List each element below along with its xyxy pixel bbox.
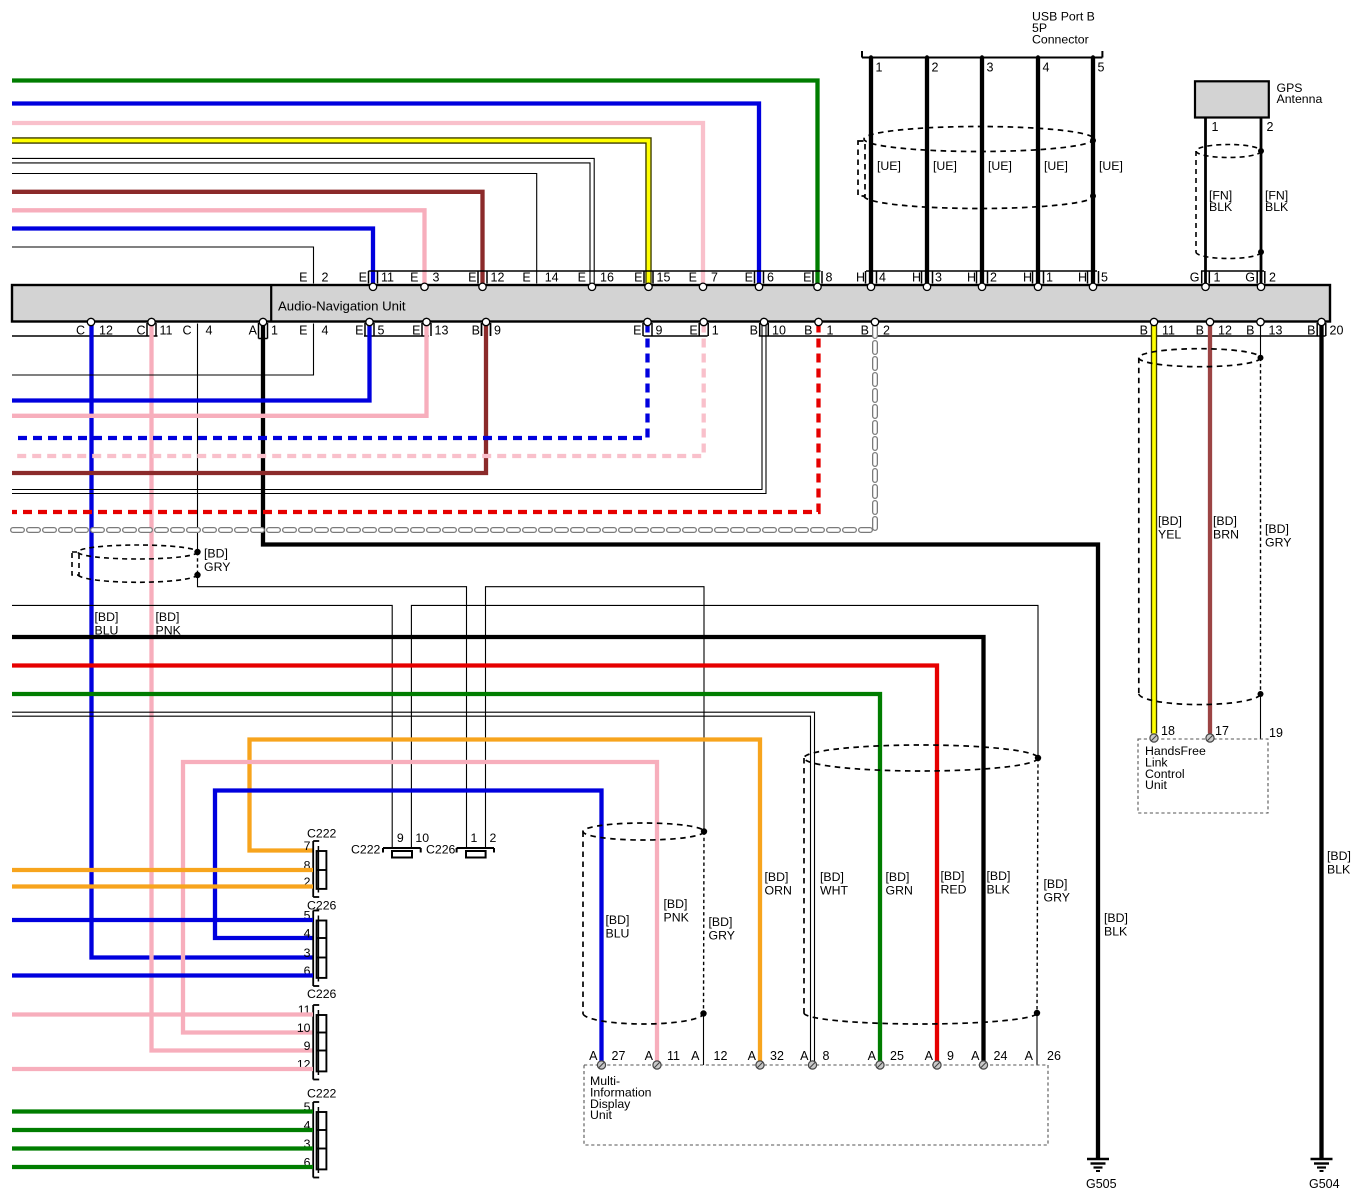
svg-text:[BD]: [BD]: [765, 870, 789, 884]
svg-text:[BD]: [BD]: [1044, 877, 1068, 891]
svg-text:E: E: [410, 270, 418, 284]
svg-text:H: H: [912, 270, 921, 284]
svg-text:E: E: [412, 324, 420, 338]
svg-text:27: 27: [612, 1049, 626, 1063]
svg-text:17: 17: [1215, 724, 1229, 738]
svg-text:E: E: [745, 270, 753, 284]
svg-text:E: E: [299, 324, 307, 338]
svg-text:Unit: Unit: [590, 1108, 612, 1122]
svg-text:7: 7: [304, 839, 311, 853]
svg-text:E: E: [468, 270, 476, 284]
svg-text:A: A: [971, 1049, 980, 1063]
svg-text:[BD]: [BD]: [95, 610, 119, 624]
svg-text:[UE]: [UE]: [933, 159, 957, 173]
svg-text:A: A: [589, 1049, 598, 1063]
svg-text:2: 2: [932, 61, 939, 75]
svg-text:E: E: [689, 324, 697, 338]
svg-text:3: 3: [935, 270, 942, 284]
svg-text:[BD]: [BD]: [941, 869, 965, 883]
svg-text:3: 3: [433, 270, 440, 284]
svg-text:C: C: [136, 324, 145, 338]
svg-text:GRN: GRN: [886, 884, 913, 898]
svg-text:E: E: [359, 270, 367, 284]
svg-text:[UE]: [UE]: [877, 159, 901, 173]
svg-text:2: 2: [490, 831, 497, 845]
svg-text:B: B: [1140, 324, 1148, 338]
svg-text:8: 8: [826, 270, 833, 284]
svg-text:BLK: BLK: [1265, 200, 1289, 214]
svg-text:9: 9: [397, 831, 404, 845]
svg-text:26: 26: [1047, 1049, 1061, 1063]
svg-text:G504: G504: [1309, 1177, 1340, 1191]
svg-text:24: 24: [994, 1049, 1008, 1063]
svg-text:9: 9: [304, 1039, 311, 1053]
svg-text:15: 15: [657, 270, 671, 284]
svg-text:32: 32: [770, 1049, 784, 1063]
svg-text:YEL: YEL: [1158, 528, 1181, 542]
svg-text:11: 11: [381, 270, 394, 284]
svg-text:[UE]: [UE]: [1099, 159, 1123, 173]
svg-text:10: 10: [772, 324, 786, 338]
svg-text:BLK: BLK: [1104, 925, 1128, 939]
svg-text:E: E: [578, 270, 586, 284]
svg-text:BRN: BRN: [1213, 528, 1239, 542]
svg-text:[BD]: [BD]: [709, 915, 733, 929]
svg-text:7: 7: [711, 270, 718, 284]
svg-text:C226: C226: [426, 843, 456, 857]
svg-text:A: A: [748, 1049, 757, 1063]
svg-text:PNK: PNK: [156, 624, 182, 638]
svg-text:A: A: [691, 1049, 700, 1063]
svg-text:C226: C226: [307, 899, 337, 913]
svg-text:4: 4: [879, 270, 886, 284]
svg-text:1: 1: [1214, 270, 1221, 284]
svg-text:[BD]: [BD]: [156, 610, 180, 624]
svg-text:5: 5: [1101, 270, 1108, 284]
svg-text:G: G: [1190, 270, 1200, 284]
svg-text:Audio-Navigation Unit: Audio-Navigation Unit: [278, 299, 406, 314]
svg-text:18: 18: [1161, 724, 1175, 738]
svg-text:10: 10: [415, 831, 429, 845]
svg-text:BLK: BLK: [1327, 863, 1351, 877]
svg-text:Antenna: Antenna: [1277, 92, 1323, 106]
svg-text:11: 11: [160, 324, 173, 338]
svg-text:9: 9: [947, 1049, 954, 1063]
svg-text:[BD]: [BD]: [820, 870, 844, 884]
svg-text:C222: C222: [351, 843, 381, 857]
svg-text:E: E: [522, 270, 530, 284]
svg-text:14: 14: [545, 270, 559, 284]
svg-text:C222: C222: [307, 827, 337, 841]
svg-text:[BD]: [BD]: [1104, 911, 1128, 925]
svg-text:[BD]: [BD]: [1158, 514, 1182, 528]
svg-text:11: 11: [1162, 324, 1175, 338]
svg-text:6: 6: [767, 270, 774, 284]
svg-text:1: 1: [471, 831, 478, 845]
svg-text:2: 2: [1269, 270, 1276, 284]
svg-text:4: 4: [1043, 61, 1050, 75]
svg-text:1: 1: [827, 324, 834, 338]
svg-text:2: 2: [883, 324, 890, 338]
svg-text:PNK: PNK: [664, 911, 690, 925]
svg-text:[BD]: [BD]: [1265, 522, 1289, 536]
svg-text:BLK: BLK: [987, 883, 1011, 897]
svg-text:G505: G505: [1086, 1177, 1117, 1191]
svg-text:A: A: [249, 324, 258, 338]
svg-text:B: B: [861, 324, 869, 338]
svg-text:[BD]: [BD]: [987, 869, 1011, 883]
svg-text:9: 9: [656, 324, 663, 338]
svg-text:B: B: [1246, 324, 1254, 338]
svg-text:25: 25: [890, 1049, 904, 1063]
svg-text:E: E: [633, 324, 641, 338]
svg-text:13: 13: [1269, 324, 1283, 338]
svg-text:BLU: BLU: [606, 927, 630, 941]
svg-text:[BD]: [BD]: [606, 913, 630, 927]
svg-text:[UE]: [UE]: [1044, 159, 1068, 173]
svg-text:2: 2: [322, 270, 329, 284]
svg-text:4: 4: [304, 927, 311, 941]
svg-text:BLU: BLU: [95, 624, 119, 638]
svg-text:E: E: [689, 270, 697, 284]
svg-text:4: 4: [206, 324, 213, 338]
svg-text:[UE]: [UE]: [988, 159, 1012, 173]
svg-text:12: 12: [1218, 324, 1232, 338]
svg-text:C222: C222: [307, 1087, 337, 1101]
svg-text:B: B: [750, 324, 758, 338]
svg-text:H: H: [1078, 270, 1087, 284]
svg-text:3: 3: [987, 61, 994, 75]
svg-text:3: 3: [304, 946, 311, 960]
svg-text:5: 5: [1098, 61, 1105, 75]
svg-text:E: E: [634, 270, 642, 284]
svg-text:C226: C226: [307, 987, 337, 1001]
svg-text:Connector: Connector: [1032, 32, 1089, 46]
svg-text:10: 10: [297, 1021, 311, 1035]
svg-text:B: B: [1307, 324, 1315, 338]
svg-text:A: A: [868, 1049, 877, 1063]
svg-text:11: 11: [667, 1049, 680, 1063]
svg-text:12: 12: [714, 1049, 728, 1063]
svg-text:A: A: [925, 1049, 934, 1063]
svg-text:GRY: GRY: [204, 560, 230, 574]
svg-text:GRY: GRY: [709, 929, 735, 943]
svg-text:9: 9: [494, 324, 501, 338]
svg-text:4: 4: [322, 324, 329, 338]
svg-text:H: H: [967, 270, 976, 284]
svg-text:1: 1: [712, 324, 719, 338]
svg-text:[BD]: [BD]: [886, 870, 910, 884]
svg-text:1: 1: [876, 61, 883, 75]
svg-text:19: 19: [1269, 726, 1283, 740]
svg-text:C: C: [76, 324, 85, 338]
svg-text:13: 13: [435, 324, 449, 338]
svg-text:Unit: Unit: [1145, 778, 1167, 792]
svg-text:A: A: [1025, 1049, 1034, 1063]
svg-text:8: 8: [823, 1049, 830, 1063]
svg-text:G: G: [1245, 270, 1255, 284]
svg-text:BLK: BLK: [1209, 200, 1233, 214]
svg-text:A: A: [645, 1049, 654, 1063]
svg-text:A: A: [800, 1049, 809, 1063]
svg-text:1: 1: [1212, 120, 1219, 134]
svg-text:B: B: [804, 324, 812, 338]
svg-text:H: H: [856, 270, 865, 284]
svg-text:GRY: GRY: [1265, 536, 1291, 550]
svg-text:1: 1: [271, 324, 278, 338]
svg-text:B: B: [1196, 324, 1204, 338]
svg-text:[BD]: [BD]: [204, 547, 228, 561]
svg-text:1: 1: [1046, 270, 1053, 284]
svg-text:2: 2: [1267, 120, 1274, 134]
svg-text:E: E: [355, 324, 363, 338]
svg-text:12: 12: [491, 270, 505, 284]
svg-text:12: 12: [99, 324, 113, 338]
svg-text:20: 20: [1330, 324, 1344, 338]
svg-text:B: B: [472, 324, 480, 338]
svg-text:C: C: [182, 324, 191, 338]
svg-text:E: E: [803, 270, 811, 284]
svg-text:GRY: GRY: [1044, 891, 1070, 905]
svg-text:16: 16: [600, 270, 614, 284]
svg-text:H: H: [1023, 270, 1032, 284]
svg-text:[BD]: [BD]: [664, 897, 688, 911]
svg-text:ORN: ORN: [765, 884, 792, 898]
svg-text:E: E: [299, 270, 307, 284]
svg-text:[BD]: [BD]: [1213, 514, 1237, 528]
svg-text:5: 5: [378, 324, 385, 338]
svg-text:2: 2: [990, 270, 997, 284]
svg-text:WHT: WHT: [820, 884, 848, 898]
svg-text:RED: RED: [941, 883, 967, 897]
svg-text:[BD]: [BD]: [1327, 849, 1351, 863]
